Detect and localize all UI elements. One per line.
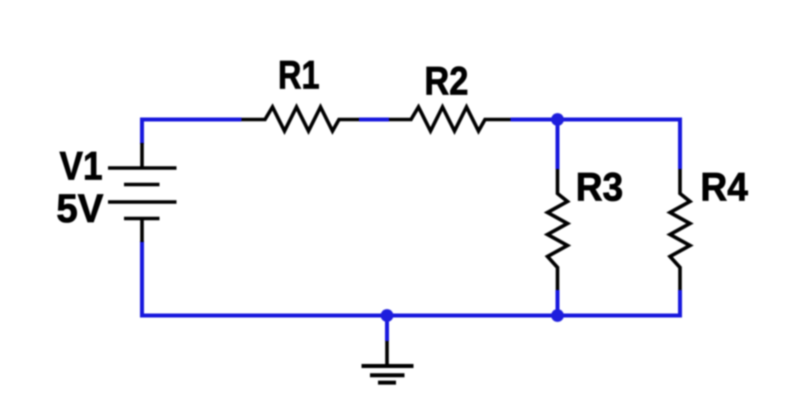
wire between R1 and R2	[359, 118, 389, 122]
svg-text:R4: R4	[700, 165, 748, 209]
wire battery bottom to bottom-left corner	[142, 241, 387, 316]
battery V1	[108, 143, 177, 242]
svg-text:R3: R3	[576, 165, 624, 209]
resistor R2	[389, 107, 511, 131]
svg-text:V1: V1	[60, 145, 103, 189]
wire bottom: ground node to R3 bottom node and bottom-right corner	[387, 290, 680, 316]
node ground junction	[381, 309, 394, 322]
wire ground stub	[385, 316, 389, 342]
svg-text:5V: 5V	[56, 187, 103, 231]
node A (top junction)	[551, 113, 564, 126]
node B (bottom junction at R3)	[551, 309, 564, 322]
wire top-left: battery top to R1 left	[142, 120, 242, 145]
resistor R4	[670, 169, 690, 290]
resistor R1	[242, 107, 360, 131]
ground	[362, 341, 414, 383]
svg-text:R1: R1	[278, 53, 320, 97]
resistor R3	[548, 169, 568, 290]
svg-text:R2: R2	[424, 59, 468, 103]
wire R2 to top-right corner and down to R4	[511, 120, 681, 170]
wire node A down to R3 top	[556, 120, 560, 170]
wire R3 bottom to bottom node	[556, 290, 560, 316]
